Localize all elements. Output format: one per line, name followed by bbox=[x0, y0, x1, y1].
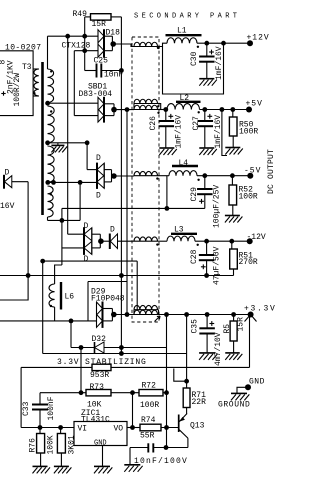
ground R52 bbox=[225, 215, 240, 217]
svg-text:8: 8 bbox=[0, 60, 8, 65]
wire 953R to VI node bbox=[21, 366, 92, 368]
wire R49 left to CTX node bbox=[85, 16, 91, 18]
svg-text:-12V: -12V bbox=[247, 233, 266, 242]
ground 10nF cap bbox=[124, 464, 140, 466]
svg-text:10nF: 10nF bbox=[104, 71, 123, 80]
wire +12V rail bbox=[197, 42, 250, 44]
wire return to left edge bbox=[0, 276, 28, 301]
svg-text:100K: 100K bbox=[47, 435, 56, 454]
winding +12V in box bbox=[134, 42, 158, 46]
svg-text:T3: T3 bbox=[22, 63, 32, 72]
wire +12V return loop bbox=[221, 41, 226, 46]
svg-text:GROUND: GROUND bbox=[218, 401, 250, 410]
T3 core bbox=[41, 62, 44, 215]
winding +5V in box bbox=[134, 99, 158, 103]
wire cap to ground bbox=[129, 448, 131, 465]
ground C30 bbox=[199, 78, 214, 80]
svg-text:C35: C35 bbox=[191, 319, 200, 334]
svg-text:L6: L6 bbox=[65, 293, 75, 302]
svg-text:270R: 270R bbox=[239, 258, 258, 267]
T3 secondary winding bbox=[48, 69, 54, 103]
svg-text:+5V: +5V bbox=[246, 100, 263, 109]
ground R50 bbox=[225, 147, 240, 149]
node +12V terminal bbox=[247, 40, 253, 46]
wire link to D29 branch bbox=[87, 282, 89, 321]
capacitor C30 bbox=[204, 41, 209, 46]
resistor R49 bbox=[91, 14, 112, 20]
wire to 3.3V windings bbox=[43, 260, 138, 262]
inductor L6 bbox=[49, 284, 55, 307]
wire D18 lower anode bbox=[74, 50, 98, 52]
node CTX128 wire bbox=[48, 35, 99, 37]
wire -12V rail bbox=[158, 240, 168, 242]
svg-text:15R: 15R bbox=[92, 20, 107, 29]
resistor R50 bbox=[232, 110, 234, 118]
svg-text:D: D bbox=[96, 192, 101, 201]
wire 3.3V feedback from terminal bbox=[249, 315, 251, 368]
T3 tap to SBD1 upper anode bbox=[45, 101, 50, 106]
wire T3 top to CTX bbox=[47, 36, 49, 69]
svg-text:10nF/100V: 10nF/100V bbox=[134, 457, 188, 466]
svg-text:100R: 100R bbox=[239, 128, 258, 137]
svg-text:15R: 15R bbox=[236, 317, 245, 332]
resistor 3K01 bbox=[60, 428, 62, 434]
svg-text:GND: GND bbox=[94, 440, 107, 448]
svg-text:4m7/10V: 4m7/10V bbox=[214, 332, 223, 366]
svg-text:VI: VI bbox=[78, 425, 88, 434]
wire +3.3V rail bbox=[158, 314, 251, 316]
svg-text:22R: 22R bbox=[192, 398, 207, 407]
wire +5V rail bbox=[158, 109, 168, 111]
wire rail to R74 node bbox=[166, 315, 168, 448]
winding arrow marks bbox=[155, 316, 161, 322]
wire rail to R71 bbox=[186, 315, 188, 381]
wire GND pin bbox=[102, 446, 104, 467]
ground 3K01 bbox=[54, 465, 69, 467]
svg-text:55R: 55R bbox=[140, 432, 155, 441]
wire 0V return rail bbox=[0, 275, 234, 277]
svg-text:1mF/16V: 1mF/16V bbox=[215, 46, 224, 80]
wire 953R to +3.3V terminal bbox=[111, 366, 250, 368]
node -12V terminal bbox=[247, 238, 253, 244]
wire VO to R72 bbox=[127, 427, 140, 429]
resistor 953R bbox=[92, 364, 111, 370]
svg-text:3K01: 3K01 bbox=[67, 435, 76, 454]
capacitor 10nF/100V bbox=[153, 447, 188, 449]
resistor R52 bbox=[231, 176, 233, 185]
svg-text:SECONDARY PART: SECONDARY PART bbox=[134, 13, 240, 21]
resistor R71 bbox=[183, 388, 190, 408]
ground TL431 bbox=[94, 465, 110, 467]
wire C33 top line bbox=[40, 392, 81, 394]
svg-text:100R: 100R bbox=[140, 401, 159, 410]
wire -5V rail bbox=[158, 175, 170, 177]
wire CTX bus to bottom rectifier bbox=[67, 36, 69, 234]
svg-text:47µF/50V: 47µF/50V bbox=[213, 246, 222, 285]
svg-text:Q13: Q13 bbox=[190, 422, 205, 431]
wire L6 output bbox=[0, 320, 96, 322]
wire R49 right vertical bus bbox=[111, 16, 121, 18]
wire stabilizing line bbox=[43, 353, 187, 355]
svg-text:GND: GND bbox=[249, 378, 265, 387]
diode D18 dual bbox=[97, 30, 99, 58]
svg-text:100µF/25V: 100µF/25V bbox=[213, 185, 222, 228]
node +5V terminal bbox=[246, 107, 252, 113]
svg-text:-5V: -5V bbox=[244, 167, 261, 176]
T3 lower tap wire to SBD1 bbox=[74, 115, 98, 117]
svg-text:C30: C30 bbox=[190, 51, 199, 66]
svg-text:D83-004: D83-004 bbox=[79, 90, 113, 99]
node +3.3V terminal bbox=[248, 312, 254, 318]
node GND terminal bbox=[245, 384, 251, 390]
ground GROUND symbol bbox=[231, 392, 247, 394]
svg-text:100R: 100R bbox=[239, 193, 258, 202]
resistor R51 bbox=[231, 241, 233, 249]
svg-text:DC OUTPUT: DC OUTPUT bbox=[267, 149, 276, 194]
wire vertical bus from SBD1 out bbox=[126, 110, 128, 315]
T3 center tap ground bbox=[45, 140, 50, 145]
svg-text:VO: VO bbox=[114, 425, 124, 434]
ground R5 bbox=[225, 352, 240, 354]
svg-text:D: D bbox=[110, 226, 115, 235]
wire T3 bottom to L6 and bottom rectifier bbox=[47, 217, 49, 220]
wire VI line bbox=[21, 427, 74, 429]
svg-text:+3.3V: +3.3V bbox=[244, 305, 277, 314]
svg-text:D: D bbox=[96, 154, 101, 163]
transistor Q13 bbox=[178, 415, 180, 433]
T3 primary winding bbox=[34, 69, 39, 96]
ground C27 bbox=[199, 147, 214, 149]
wire C29 return bbox=[62, 207, 205, 209]
wire lower tap to mid rectifier bbox=[45, 180, 50, 185]
svg-text:D18: D18 bbox=[106, 29, 121, 38]
svg-text:D: D bbox=[5, 169, 10, 178]
ground R76 bbox=[33, 465, 48, 467]
svg-text:100R/2W: 100R/2W bbox=[13, 73, 22, 107]
winding -12V in box bbox=[134, 237, 158, 241]
svg-text:C33: C33 bbox=[22, 401, 31, 416]
wire R51 return bbox=[233, 269, 235, 276]
wire +5V loop bbox=[222, 110, 227, 156]
winding -5V in box bbox=[134, 171, 158, 175]
ground C35 bbox=[199, 352, 215, 354]
svg-text:+12V: +12V bbox=[247, 34, 270, 43]
ground C26 bbox=[159, 147, 174, 149]
wire link to R71 top bbox=[174, 369, 187, 382]
svg-text:1mF/16V: 1mF/16V bbox=[175, 115, 184, 149]
svg-text:D: D bbox=[84, 255, 89, 264]
svg-text:C26: C26 bbox=[149, 116, 158, 131]
svg-text:100nF: 100nF bbox=[47, 396, 56, 420]
svg-text:C27: C27 bbox=[192, 116, 201, 131]
node -5V terminal bbox=[247, 173, 253, 179]
svg-text:953R: 953R bbox=[90, 371, 109, 380]
wire center tap to mid rectifier bbox=[85, 140, 90, 145]
svg-text:16V: 16V bbox=[0, 202, 15, 211]
dashed secondary box bbox=[132, 37, 159, 322]
svg-text:C28: C28 bbox=[190, 249, 199, 264]
winding +3.3V in box lower bbox=[134, 310, 158, 314]
winding +3.3V in box upper bbox=[134, 305, 158, 309]
